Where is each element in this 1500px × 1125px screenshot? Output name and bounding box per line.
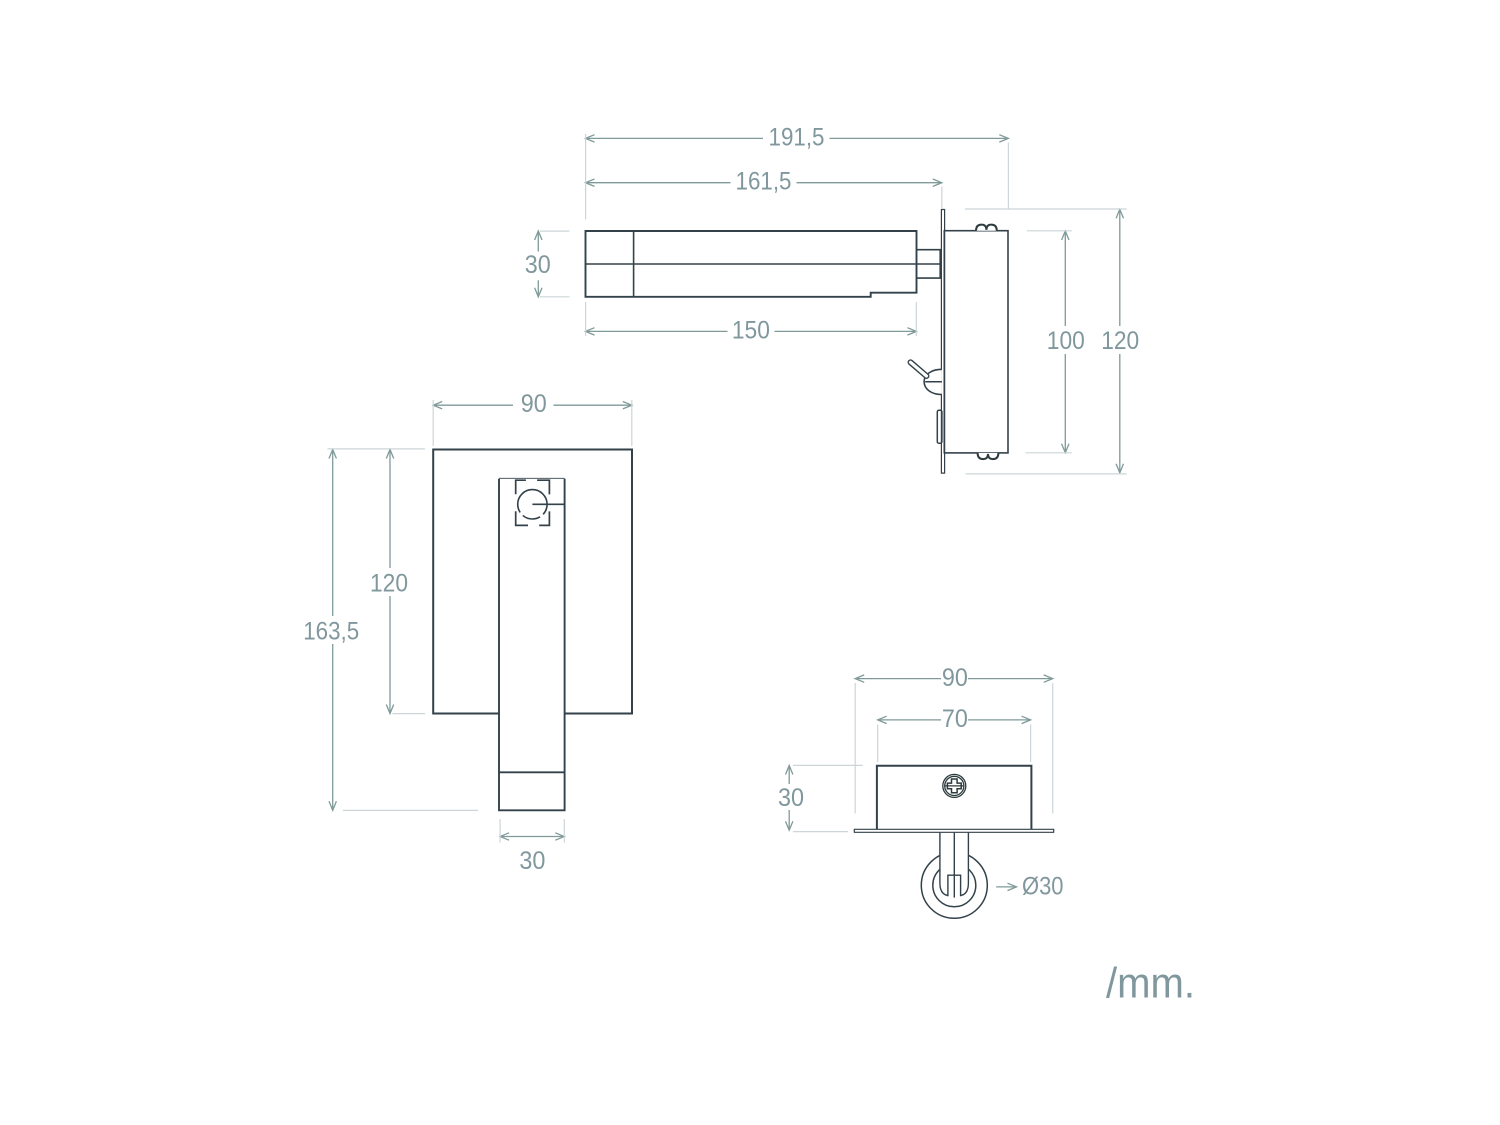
svg-text:30: 30 [525,251,551,279]
wall plate front [433,450,632,714]
toggle switch lever [907,359,929,379]
dimension 70 [878,716,1031,723]
shaft white silhouette [940,833,969,896]
arm bar front [499,479,565,811]
dimension 100 [1062,231,1069,453]
svg-text:191,5: 191,5 [769,123,825,151]
body box (bottom) [877,766,1032,830]
svg-text:70: 70 [942,705,968,733]
svg-text:Ø30: Ø30 [1022,872,1064,900]
top screw head [976,225,997,231]
svg-text:120: 120 [1101,327,1139,355]
toggle switch mid line [925,381,942,383]
connector stub [917,250,941,278]
dimension 191,5 [586,135,1009,142]
svg-text:150: 150 [732,316,770,344]
dimension 120 (front) [386,450,393,714]
shaft outlines [940,833,948,896]
dimension 161,5 [586,179,942,186]
svg-text:30: 30 [778,784,804,812]
dimension 120 (side) [1116,209,1123,473]
dim texts (bottom view) [778,664,1064,901]
lamp arm body [586,231,917,297]
pivot centerline [532,503,564,505]
mount circles [921,852,987,918]
screw phillips [943,774,966,797]
svg-text:100: 100 [1047,327,1085,355]
dimension 150 [586,328,917,335]
dim texts (side view) [525,123,1139,355]
leader arrow Ø30 [996,883,1016,890]
dim texts (front view) [303,390,547,875]
shaft centerline [953,833,955,898]
dimension 30 (arm height) [535,231,542,297]
dimension 30 (bottom left) [786,766,793,831]
dashed head square [516,480,550,525]
svg-text:90: 90 [521,390,547,418]
dimension 90 (front) [433,402,632,409]
svg-text:120: 120 [370,570,408,598]
dimension 90 (bottom) [855,675,1052,682]
svg-text:30: 30 [519,847,545,875]
svg-text:161,5: 161,5 [736,168,792,196]
bottom screw head [978,453,999,459]
dashed pivot circle [518,490,547,519]
arm inner vertical line [633,231,635,297]
svg-text:90: 90 [942,664,968,692]
extension lines (bottom view) [793,683,1053,832]
wall plate (side) [941,209,944,474]
dimension 163,5 [329,450,336,811]
svg-text:163,5: 163,5 [303,618,359,646]
inner slot rect [948,875,961,896]
wall plate (bottom view, edge) [854,829,1054,832]
cable entry box [937,410,942,443]
svg-text:/mm.: /mm. [1106,960,1195,1008]
extension lines (front view) [328,400,632,843]
extension lines (side view) [540,134,1127,474]
lamp body box (side) [944,231,1008,453]
toggle switch body [924,369,942,394]
arm mid horizontal line [586,263,942,265]
dimension 30 (front bottom) [500,833,564,840]
